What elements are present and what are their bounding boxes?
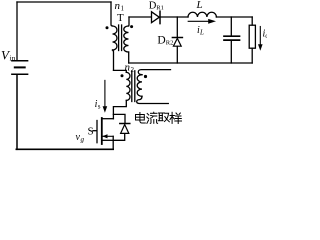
svg-text:L: L [199, 29, 204, 37]
svg-text:2: 2 [131, 66, 135, 74]
svg-text:S: S [88, 126, 94, 138]
svg-text:L: L [196, 0, 203, 11]
svg-text:R2: R2 [166, 40, 174, 47]
svg-text:D: D [157, 35, 165, 47]
svg-text:in: in [10, 54, 16, 63]
svg-text:o: o [265, 32, 267, 40]
svg-text:T: T [117, 12, 124, 24]
svg-text:s: s [98, 103, 101, 111]
svg-text:g: g [81, 136, 85, 144]
svg-text:R1: R1 [156, 5, 164, 12]
